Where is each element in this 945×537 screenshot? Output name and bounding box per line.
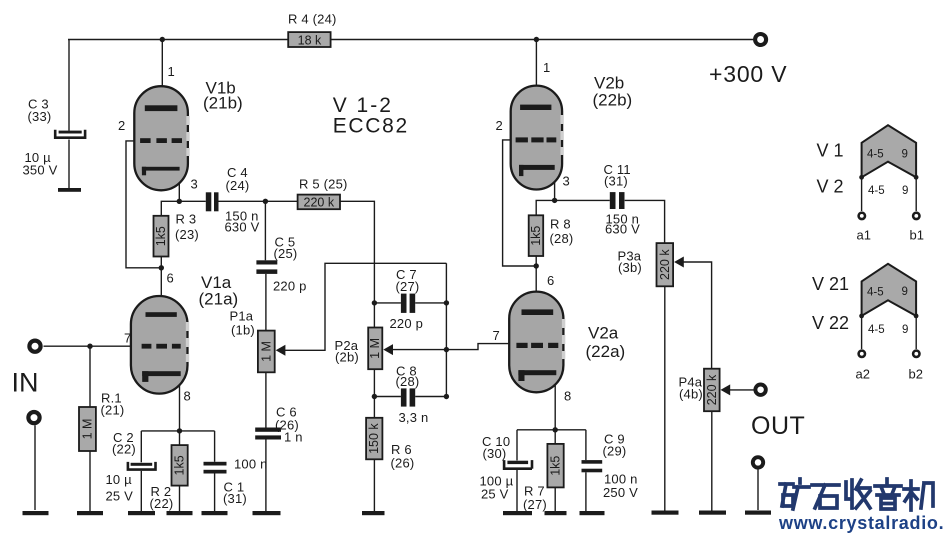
- svg-text:25 V: 25 V: [106, 489, 134, 504]
- V1b anode pin1: [145, 105, 178, 111]
- wire P1a wiper to C7 net: [277, 263, 446, 350]
- terminal OUT upper: [755, 385, 765, 395]
- svg-text:9: 9: [902, 185, 908, 197]
- junction dot V2b pin3: [552, 198, 557, 203]
- svg-text:9: 9: [902, 286, 908, 298]
- capacitor C7 plates: [401, 294, 407, 313]
- wire V1a cathode pin8: [179, 376, 181, 431]
- terminal b2: [913, 351, 919, 357]
- svg-text:(2b): (2b): [335, 350, 359, 365]
- svg-text:250 V: 250 V: [603, 485, 638, 500]
- svg-text:(22a): (22a): [586, 342, 626, 361]
- wire V1b grid pin2: [126, 141, 161, 268]
- svg-text:V 2: V 2: [817, 177, 844, 197]
- junction dot R8 bottom: [534, 263, 539, 268]
- svg-text:(21b): (21b): [203, 94, 243, 113]
- capacitor C3 electrolytic: [55, 130, 85, 138]
- svg-text:1: 1: [543, 60, 550, 75]
- wire C3 to ground: [68, 140, 70, 189]
- socket diagram V21-V22 chevron: [862, 264, 917, 316]
- wire C11 to P3a: [625, 200, 665, 243]
- svg-text:b2: b2: [909, 367, 923, 382]
- capacitor C1 plates: [204, 462, 227, 466]
- svg-text:(29): (29): [603, 444, 627, 459]
- svg-text:2: 2: [118, 118, 125, 133]
- junction dot rail V2b: [534, 37, 539, 42]
- wire C8 right: [415, 396, 446, 398]
- svg-text:(4b): (4b): [679, 387, 703, 402]
- svg-text:(28): (28): [396, 374, 420, 389]
- svg-text:V 1: V 1: [817, 141, 844, 161]
- terminal +300V: [755, 34, 766, 45]
- wiper arrow P3a: [674, 257, 684, 268]
- wire R1 to ground: [89, 451, 91, 512]
- capacitor C8 plates: [401, 388, 407, 406]
- svg-text:3,3 n: 3,3 n: [399, 410, 429, 425]
- svg-text:(22): (22): [112, 442, 136, 457]
- wire C9 to ground: [585, 472, 587, 511]
- capacitor C6 plates: [255, 428, 281, 432]
- terminal IN upper: [29, 341, 40, 352]
- wire V2a cathode pin8: [554, 375, 556, 430]
- svg-text:(27): (27): [396, 279, 420, 294]
- svg-text:1 M: 1 M: [81, 419, 95, 440]
- svg-text:6: 6: [547, 273, 554, 288]
- wire V2a cathode node row: [517, 429, 586, 431]
- wire C10 to ground: [516, 470, 518, 512]
- wire R8 bottom to V2a anode pin6: [535, 256, 537, 310]
- ground OUT: [745, 511, 771, 515]
- wire P4a bottom to ground: [711, 411, 713, 511]
- svg-text:220 k: 220 k: [705, 374, 719, 405]
- svg-text:(30): (30): [483, 446, 507, 461]
- wire node to R1: [89, 346, 91, 407]
- wire node to C9: [585, 430, 587, 460]
- socket V21-V22 corner dots: [859, 314, 918, 319]
- svg-text:3: 3: [563, 174, 570, 189]
- svg-text:100 n: 100 n: [234, 457, 268, 472]
- resistor R1: [79, 407, 96, 451]
- wire C7 right: [415, 302, 446, 304]
- terminal b1: [913, 213, 919, 219]
- wire pin3 node to C4: [179, 200, 206, 202]
- svg-text:www.crystalradio.cn: www.crystalradio.cn: [778, 513, 945, 533]
- svg-text:7: 7: [124, 331, 131, 346]
- terminal IN lower: [28, 412, 39, 423]
- svg-text:25 V: 25 V: [481, 487, 509, 502]
- svg-text:4-5: 4-5: [867, 287, 884, 299]
- svg-text:6: 6: [167, 271, 174, 286]
- V2b cathode pin3: [519, 165, 555, 176]
- ground C6: [253, 511, 281, 515]
- capacitor C10 electrolytic: [504, 460, 532, 469]
- V2a cathode pin8: [518, 370, 556, 381]
- wire pin3 node to C11: [555, 199, 610, 201]
- wire node to C5: [264, 201, 266, 260]
- resistor R7: [547, 444, 563, 488]
- svg-text:a1: a1: [857, 228, 871, 243]
- svg-text:(31): (31): [604, 174, 628, 189]
- svg-text:220 k: 220 k: [658, 249, 672, 280]
- watermark char kuang: [780, 479, 809, 509]
- junction dot R3 bottom: [159, 265, 164, 270]
- resistor R6: [366, 418, 382, 460]
- wire R2 to ground: [179, 486, 181, 512]
- wire node to R7: [554, 430, 556, 444]
- svg-text:a2: a2: [856, 367, 870, 382]
- svg-text:1k5: 1k5: [549, 456, 563, 476]
- V1a grid pin7 dashes: [142, 344, 181, 349]
- wire IN lower terminal to ground: [34, 425, 36, 510]
- svg-text:(23): (23): [175, 227, 199, 242]
- wire pin3 junction to R3: [161, 201, 179, 216]
- terminal a2: [859, 351, 865, 357]
- capacitor C11 plates: [610, 192, 616, 209]
- wire IN to V1a grid pin7: [44, 345, 142, 347]
- wiper arrow P4a: [721, 384, 731, 395]
- ground C9: [580, 511, 605, 515]
- capacitor C5 plates: [256, 260, 277, 264]
- wire C6 to ground: [265, 440, 267, 512]
- wiper arrow P1a: [276, 345, 286, 356]
- potentiometer P1a: [258, 331, 275, 373]
- triode V1b envelope: [134, 86, 189, 190]
- wire R6 to ground: [373, 459, 375, 511]
- ground C3: [58, 188, 81, 192]
- svg-text:V 22: V 22: [812, 313, 849, 333]
- triode V2b envelope: [511, 86, 564, 190]
- wire node to C1: [214, 431, 216, 462]
- svg-text:(1b): (1b): [231, 323, 255, 338]
- junction dot C8 right: [444, 394, 449, 399]
- ground IN: [23, 511, 49, 515]
- svg-text:(27): (27): [523, 497, 547, 512]
- wire node to V2a grid pin7: [446, 344, 517, 350]
- wire R5 right to P2a chain: [340, 201, 374, 327]
- V2a grid pin7 dashes: [516, 343, 558, 348]
- watermark char ji: [904, 481, 933, 510]
- watermark char shou: [846, 480, 870, 508]
- svg-text:1k5: 1k5: [154, 226, 168, 246]
- wire right feedback vertical: [445, 263, 447, 396]
- wire node to C10: [516, 430, 518, 461]
- V1b cathode pin3: [142, 167, 180, 176]
- svg-text:9: 9: [902, 324, 908, 336]
- ground C2: [128, 511, 155, 515]
- ground R2: [167, 511, 193, 515]
- svg-text:V 21: V 21: [812, 274, 849, 294]
- wire R7 to ground: [554, 487, 556, 511]
- svg-text:R 3: R 3: [176, 212, 197, 227]
- wire P3a wiper down to P4a: [676, 262, 712, 369]
- junction dot C8 left: [372, 394, 377, 399]
- socket V1-V2 corner dots: [859, 175, 918, 180]
- svg-text:220 p: 220 p: [273, 279, 307, 294]
- junction dot V1a cathode: [177, 428, 182, 433]
- svg-text:1 M: 1 M: [368, 338, 382, 359]
- resistor R3: [154, 216, 169, 257]
- wire cathode node row: [141, 430, 214, 432]
- svg-text:b1: b1: [910, 228, 924, 243]
- potentiometer P3a: [657, 243, 674, 286]
- svg-text:4-5: 4-5: [868, 324, 885, 336]
- svg-text:R 4 (24): R 4 (24): [288, 12, 337, 27]
- wire R3 bottom to V1a anode pin6: [160, 257, 162, 313]
- junction dot IN-R1: [87, 344, 92, 349]
- wire V1b pin1 to rail: [161, 40, 163, 106]
- svg-text:(28): (28): [550, 231, 574, 246]
- wire P1a bottom to C6: [265, 372, 267, 427]
- V1b grid pin2 dashes: [140, 138, 182, 143]
- svg-text:1k5: 1k5: [173, 455, 187, 475]
- svg-text:18 k: 18 k: [298, 34, 322, 48]
- watermark char shi: [812, 485, 839, 508]
- potentiometer P4a: [704, 369, 720, 412]
- svg-text:(22b): (22b): [593, 91, 633, 110]
- wire V2b cathode pin3: [554, 170, 556, 201]
- svg-text:8: 8: [564, 389, 571, 404]
- svg-text:+300 V: +300 V: [709, 61, 787, 87]
- terminal a1: [859, 213, 865, 219]
- junction dot V1b pin3: [177, 199, 182, 204]
- junction dot C4-R5-C5: [263, 199, 268, 204]
- wire node to C2: [140, 431, 142, 462]
- resistor R4: [288, 32, 330, 47]
- wire V2b pin1 to rail: [535, 40, 537, 105]
- wire C4 to R5: [219, 200, 298, 202]
- svg-text:220 k: 220 k: [304, 196, 335, 210]
- wire P3a bottom to ground: [664, 286, 666, 511]
- junction dot P2a wiper net: [444, 347, 449, 352]
- junction dot C7 left: [372, 300, 377, 305]
- junction dot rail V1b: [160, 37, 165, 42]
- svg-text:630 V: 630 V: [605, 222, 640, 237]
- wire C5 to P1a: [265, 274, 267, 331]
- socket diagram V1-V2 chevron: [862, 125, 917, 177]
- svg-text:1k5: 1k5: [529, 226, 543, 246]
- ground C1: [202, 511, 228, 515]
- resistor R8: [529, 215, 544, 256]
- wire C8 left: [374, 396, 401, 398]
- watermark char yin: [875, 479, 901, 509]
- wire C2 to ground: [140, 471, 142, 512]
- svg-text:(26): (26): [391, 456, 415, 471]
- svg-text:OUT: OUT: [751, 412, 805, 440]
- V1a cathode pin8: [142, 371, 181, 382]
- V1a anode pin6: [146, 312, 177, 317]
- svg-text:7: 7: [493, 328, 500, 343]
- svg-text:3: 3: [191, 177, 198, 192]
- capacitor C4 plates: [206, 192, 212, 211]
- V2b grid pin2 dashes: [516, 137, 557, 142]
- svg-text:8: 8: [184, 389, 191, 404]
- svg-text:350 V: 350 V: [23, 163, 58, 178]
- ground R7: [545, 511, 567, 515]
- svg-text:(24): (24): [226, 178, 250, 193]
- junction dot C7 right: [444, 300, 449, 305]
- ground R1: [77, 511, 103, 515]
- V2a anode pin6: [522, 309, 554, 315]
- svg-text:(31): (31): [223, 491, 247, 506]
- ground P4a: [699, 511, 726, 515]
- svg-text:150 k: 150 k: [367, 423, 381, 454]
- wire socket V21 pin a2 stem: [861, 316, 863, 349]
- resistor R5: [298, 195, 340, 210]
- svg-text:220 p: 220 p: [390, 316, 424, 331]
- svg-text:R 8: R 8: [550, 217, 571, 232]
- ground C10: [503, 511, 532, 515]
- wire V1b cathode pin3: [178, 170, 180, 202]
- potentiometer P2a: [368, 328, 382, 370]
- svg-text:1 n: 1 n: [284, 430, 303, 445]
- svg-text:(22): (22): [150, 496, 174, 511]
- wire node to R2: [179, 431, 181, 445]
- wire socket V21 pin b2 stem: [915, 316, 917, 349]
- terminal OUT lower: [753, 457, 763, 467]
- wire socket V1 pin a1 stem: [861, 178, 863, 212]
- svg-text:(21a): (21a): [199, 290, 239, 309]
- svg-text:10 µ: 10 µ: [106, 472, 133, 487]
- svg-text:ECC82: ECC82: [333, 115, 409, 138]
- junction dot V2a cathode: [553, 427, 558, 432]
- wire C7 left: [374, 302, 401, 304]
- svg-text:630 V: 630 V: [225, 220, 260, 235]
- wire rail drop to C3: [68, 40, 70, 131]
- svg-text:IN: IN: [12, 368, 39, 398]
- wire socket V1 pin b1 stem: [915, 178, 917, 212]
- wire P4a wiper to OUT: [722, 389, 754, 391]
- resistor R2: [172, 445, 188, 486]
- capacitor C9 plates: [582, 460, 603, 464]
- wire C1 to ground: [214, 474, 216, 512]
- svg-text:1: 1: [168, 64, 175, 79]
- wire pin3 junction to R8: [536, 200, 554, 215]
- triode V1a envelope: [131, 296, 189, 394]
- ground P3a: [652, 511, 679, 515]
- wire V2b grid pin2: [503, 140, 537, 266]
- svg-text:9: 9: [902, 149, 908, 161]
- svg-text:P1a: P1a: [230, 309, 254, 324]
- svg-text:R 5 (25): R 5 (25): [299, 177, 348, 192]
- wire P2a bottom to R6: [373, 369, 375, 418]
- ground R6: [362, 511, 385, 515]
- svg-text:4-5: 4-5: [868, 185, 885, 197]
- wire OUT lower terminal to ground: [757, 469, 759, 510]
- svg-text:(33): (33): [28, 109, 52, 124]
- capacitor C2 electrolytic: [128, 462, 156, 470]
- svg-text:V2a: V2a: [588, 324, 619, 343]
- V2b anode pin1: [520, 105, 551, 110]
- wire +300V top rail: [68, 39, 753, 41]
- svg-text:1 M: 1 M: [259, 341, 273, 362]
- svg-text:(21): (21): [101, 403, 125, 418]
- svg-text:(25): (25): [274, 246, 298, 261]
- wire P2a wiper to node: [385, 349, 446, 351]
- svg-text:2: 2: [496, 118, 503, 133]
- triode V2a envelope: [509, 292, 565, 393]
- wiper arrow P2a: [383, 344, 393, 355]
- svg-text:4-5: 4-5: [867, 149, 884, 161]
- svg-text:(3b): (3b): [618, 260, 642, 275]
